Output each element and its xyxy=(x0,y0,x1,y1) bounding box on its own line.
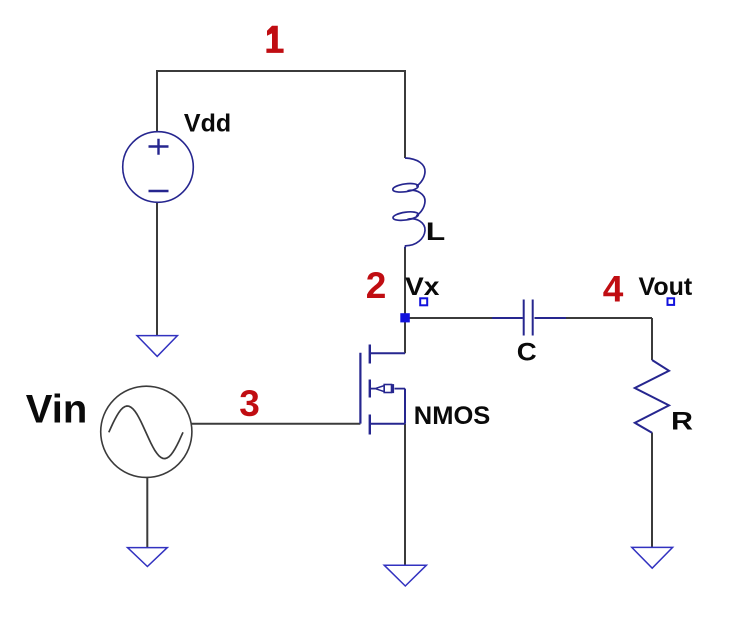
svg-text:4: 4 xyxy=(603,268,624,309)
svg-text:2: 2 xyxy=(366,265,387,306)
svg-text:L: L xyxy=(426,218,446,246)
svg-text:R: R xyxy=(671,407,693,435)
svg-text:Vin: Vin xyxy=(26,387,88,431)
svg-text:NMOS: NMOS xyxy=(414,402,491,430)
svg-text:Vout: Vout xyxy=(639,273,693,301)
svg-text:Vx: Vx xyxy=(405,273,440,301)
svg-text:Vdd: Vdd xyxy=(184,110,231,138)
svg-text:C: C xyxy=(517,339,537,367)
svg-text:3: 3 xyxy=(239,383,260,424)
